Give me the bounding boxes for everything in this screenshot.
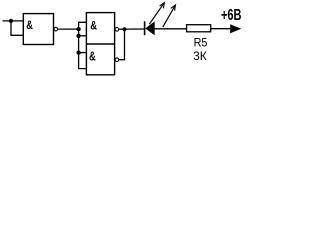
svg-text:+6В: +6В: [221, 7, 242, 24]
node: junction dot at D1.1 output: [76, 27, 80, 31]
node: input junction dot: [9, 19, 13, 23]
LED emission arrow 2: [163, 6, 175, 28]
inversion bubble D1.3 output: [115, 58, 119, 62]
wire: LED to resistor: [154, 28, 186, 30]
resistor R5 box: [187, 25, 211, 32]
wire: branch to input 1 of D1.3: [79, 52, 87, 54]
wire: branch to input 2 of D1.2: [79, 35, 87, 37]
svg-text:&: &: [89, 50, 96, 64]
LED VD1 cathode bar: [144, 21, 146, 35]
gate D1.2/D1.3 shared box: [86, 13, 114, 75]
inversion bubble D1.2 output: [115, 28, 119, 32]
inversion bubble D1.1 output: [54, 27, 58, 31]
node: junction dot D1.2 input 2: [76, 34, 80, 38]
LED emission arrow 1: [149, 3, 164, 24]
svg-text:3К: 3К: [193, 49, 207, 63]
wire: D1.2 output to LED: [119, 28, 145, 30]
svg-text:R5: R5: [194, 36, 208, 49]
gate D1.1 box: [23, 14, 53, 45]
svg-text:&: &: [26, 18, 33, 32]
divider between D1.2 and D1.3: [86, 43, 114, 45]
node: junction dot D1.3 input 1: [76, 50, 80, 54]
svg-text:&: &: [90, 19, 97, 33]
wire: input horizontal: [3, 20, 24, 22]
node: junction dot of joined outputs: [122, 27, 126, 31]
wire: input branch down to second input of gate D1.1: [11, 21, 23, 35]
wire: D1.1 output to rail: [57, 28, 78, 30]
LED VD1 triangle: [145, 21, 155, 35]
wire: D1.3 output up to join D1.2 output: [119, 29, 125, 59]
wire: vertical distribution rail with top/bottom branches: [79, 22, 87, 68]
wire: resistor to +6V terminal: [211, 28, 231, 30]
+6V terminal arrowhead: [230, 24, 241, 33]
